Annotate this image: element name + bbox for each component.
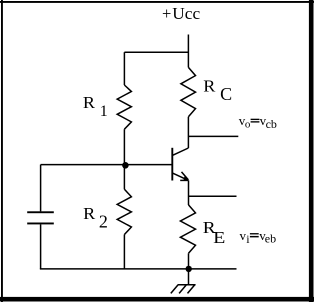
svg-text:cb: cb bbox=[266, 117, 277, 131]
svg-text:+: + bbox=[162, 4, 171, 23]
svg-text:R: R bbox=[83, 94, 96, 112]
svg-text:eb: eb bbox=[265, 231, 276, 245]
svg-text:C: C bbox=[220, 84, 232, 104]
svg-text:R: R bbox=[83, 205, 96, 223]
svg-text:1: 1 bbox=[100, 103, 108, 120]
svg-text:i: i bbox=[246, 232, 250, 246]
svg-text:E: E bbox=[213, 228, 225, 246]
svg-text:Ucc: Ucc bbox=[172, 4, 200, 23]
svg-text:2: 2 bbox=[99, 212, 108, 232]
svg-text:R: R bbox=[203, 77, 216, 95]
svg-text:o: o bbox=[245, 119, 251, 131]
